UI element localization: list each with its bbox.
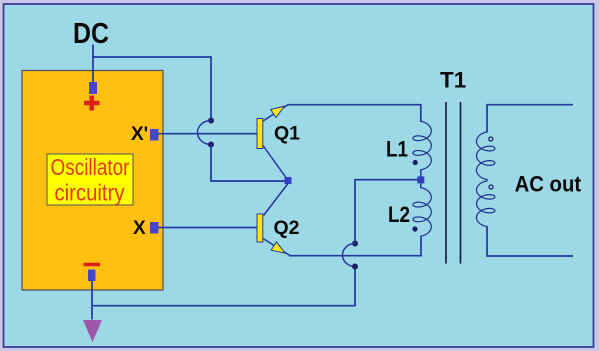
wire Q2 emitter diagonal: [263, 239, 290, 256]
terminal - square: [88, 270, 96, 282]
svg-text:L1: L1: [386, 137, 408, 162]
wire center tap rail: [355, 180, 420, 242]
wire bottom rail: [92, 268, 355, 306]
oscillator block box: [22, 71, 163, 291]
svg-text:circuitry: circuitry: [55, 179, 125, 205]
center tap square: [417, 176, 424, 183]
phasing dot L2: [412, 226, 417, 231]
arrow on Q2 emitter: [271, 242, 285, 253]
hop arc 1: [198, 121, 212, 145]
svg-text:DC: DC: [73, 18, 109, 50]
terminal X square: [150, 222, 159, 234]
core line right: [460, 102, 462, 264]
wire hop1 to node rail: [211, 145, 285, 182]
svg-text:Oscillator: Oscillator: [51, 154, 130, 180]
terminal X' square: [150, 129, 159, 141]
wire X' to Q1 base: [159, 133, 258, 135]
minus symbol: [84, 263, 101, 267]
wire secondary mid stub: [486, 179, 488, 182]
svg-text:X: X: [133, 218, 146, 239]
wire secondary bottom: [487, 226, 573, 256]
wire minus down to arrow: [91, 281, 93, 320]
wire Q1 collector diagonal: [263, 105, 288, 121]
wire top rail to hop 1: [92, 57, 211, 119]
svg-text:T1: T1: [440, 68, 466, 93]
winding secondary upper: [477, 132, 495, 180]
svg-text:Q2: Q2: [274, 217, 300, 239]
junction dot hop1 bottom: [208, 142, 214, 148]
svg-text:L2: L2: [388, 202, 410, 227]
wire Q1 collector to L1 top: [287, 105, 421, 122]
ground arrow (purple): [83, 320, 102, 342]
svg-text:AC out: AC out: [515, 172, 582, 197]
phasing ring secondary lower: [489, 185, 493, 189]
wire L1 bottom to tap: [420, 169, 422, 177]
winding secondary lower: [477, 181, 495, 227]
junction dot hop1 top: [208, 118, 214, 124]
wire L2 top stub: [420, 184, 422, 189]
junction dot hop2 top: [352, 241, 358, 247]
arrow on Q1 collector: [271, 106, 285, 117]
wire X to Q2 base: [159, 227, 258, 229]
transistor Q2 bar: [257, 214, 263, 242]
junction dot hop2 bottom: [352, 264, 358, 270]
transistor Q1 bar: [257, 119, 263, 149]
wire secondary top: [487, 105, 573, 133]
core line left: [445, 102, 447, 264]
phasing ring secondary upper: [489, 137, 493, 141]
wire Q2 emitter rail to L2 bottom: [289, 236, 421, 256]
winding L1: [413, 121, 431, 170]
phasing dot L1: [413, 160, 418, 165]
terminal + square: [89, 82, 97, 94]
oscillator label box: [47, 154, 133, 205]
winding L2: [413, 188, 431, 237]
hop arc 2: [343, 244, 356, 267]
wire DC vertical: [92, 45, 94, 83]
svg-text:Q1: Q1: [274, 122, 300, 144]
wire Q1 emitter diagonal: [263, 146, 287, 180]
node square Q1/Q2 junction: [285, 177, 292, 184]
wire Q2 collector diagonal: [264, 184, 289, 216]
plus symbol: [84, 96, 100, 111]
svg-text:X': X': [131, 124, 148, 145]
